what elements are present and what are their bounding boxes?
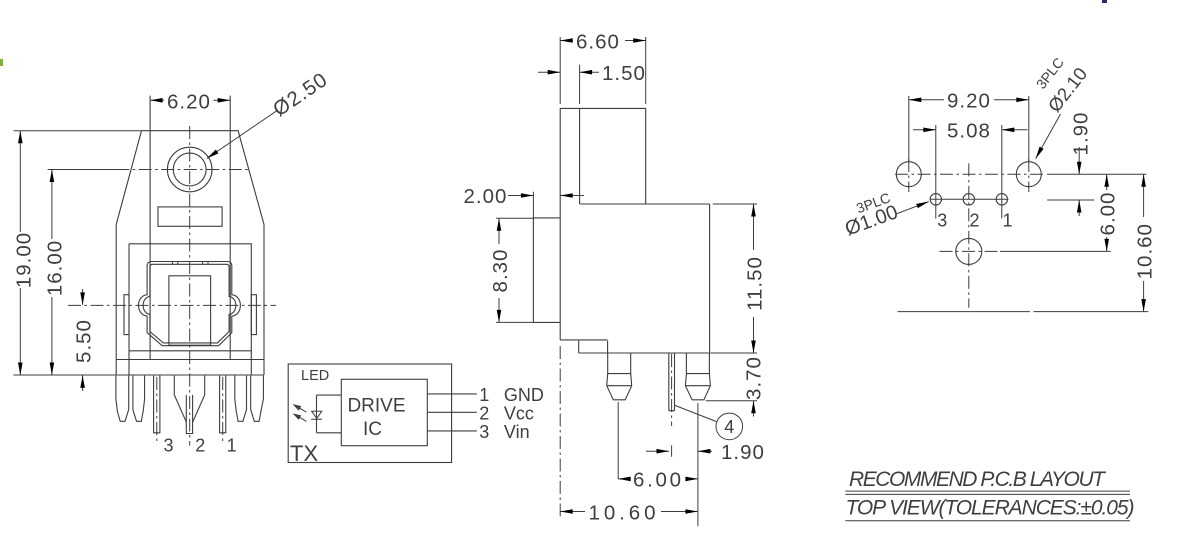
svg-text:2: 2 xyxy=(195,436,205,456)
dimension 1.90 side xyxy=(646,441,765,464)
dimension 10.60 side xyxy=(560,501,698,524)
front view base band xyxy=(116,360,264,376)
dimension 1.50 xyxy=(538,62,646,104)
front metal pin 2 xyxy=(186,395,192,434)
title line recommend pcb layout xyxy=(849,468,1107,491)
svg-text:2: 2 xyxy=(479,403,489,423)
svg-text:GND: GND xyxy=(504,385,544,405)
title bottom rule xyxy=(845,520,1130,522)
dimension 6.20 xyxy=(150,90,230,113)
pcb vertical centerline xyxy=(968,163,970,307)
svg-text:LED: LED xyxy=(301,368,329,384)
dimension 19.00 xyxy=(13,131,142,375)
pcb right shared extension line xyxy=(1047,173,1147,175)
side view body xyxy=(579,204,710,353)
svg-text:19.00: 19.00 xyxy=(13,232,36,288)
schematic output wire 1 xyxy=(427,393,477,395)
dimension 9.20 xyxy=(909,90,1029,162)
front plastic peg far-right xyxy=(251,376,264,422)
front view vertical centerline xyxy=(189,126,191,446)
front plastic peg second-left xyxy=(133,376,145,422)
svg-text:1.50: 1.50 xyxy=(602,62,646,85)
toslink socket top edge tick marks xyxy=(172,262,208,265)
svg-text:Vin: Vin xyxy=(504,422,530,442)
svg-text:5.50: 5.50 xyxy=(73,319,96,363)
svg-text:TX: TX xyxy=(290,441,318,466)
svg-text:9.20: 9.20 xyxy=(947,90,991,113)
svg-text:3: 3 xyxy=(937,211,947,231)
front plastic peg second-right xyxy=(235,376,247,422)
socket side latch tab right xyxy=(251,295,256,335)
pcb large holes horizontal centerline xyxy=(895,173,1046,175)
svg-text:1: 1 xyxy=(227,436,237,456)
dimension 5.50 xyxy=(73,289,96,391)
svg-text:6.60: 6.60 xyxy=(576,30,620,53)
pin number 2 label xyxy=(195,436,205,456)
svg-text:6.00: 6.00 xyxy=(633,469,682,492)
svg-text:1: 1 xyxy=(1003,211,1013,231)
front metal pin 3 xyxy=(154,376,160,433)
front view hole horizontal centerline xyxy=(116,169,250,171)
svg-text:1: 1 xyxy=(479,385,489,405)
pcb pad row horizontal line xyxy=(931,198,1009,200)
title double rule xyxy=(845,491,1130,494)
green fleck left edge xyxy=(0,59,3,66)
side view bottom front notch xyxy=(560,340,607,353)
schematic pin 3 Vin xyxy=(479,422,529,442)
title line top view tolerances xyxy=(846,497,1135,520)
left pin extension line xyxy=(617,402,619,479)
hole diameter leader 2.50 xyxy=(206,68,333,161)
circled callout 4 xyxy=(675,405,743,439)
pcb bottom hole extension line xyxy=(1000,250,1111,252)
pad diameter leader 1.00 xyxy=(842,189,929,240)
socket side latch tab left xyxy=(124,295,129,335)
pin 1 centerline xyxy=(222,377,224,443)
svg-text:11.50: 11.50 xyxy=(744,256,767,311)
front edge extension centerline xyxy=(559,346,561,519)
dimension 3.70 xyxy=(706,356,766,416)
svg-text:5.08: 5.08 xyxy=(947,120,991,143)
toslink socket inner contour xyxy=(143,264,236,343)
svg-text:10.60: 10.60 xyxy=(1134,223,1157,279)
svg-text:TOP VIEW(TOLERANCES:±0.05): TOP VIEW(TOLERANCES:±0.05) xyxy=(846,497,1135,520)
right pin extension line xyxy=(697,403,699,526)
pcb bottom extension line xyxy=(898,311,1149,313)
front view inner vertical edges (6.20 extension lines) xyxy=(150,96,230,360)
schematic output wire 3 xyxy=(427,430,477,432)
led emission arrow lower xyxy=(293,413,307,421)
svg-text:2.00: 2.00 xyxy=(464,185,508,208)
toslink socket outer contour xyxy=(139,262,241,346)
dimension 6.00 pcb xyxy=(1097,174,1120,251)
schematic IC text xyxy=(363,419,382,440)
front metal pin 1 xyxy=(220,376,226,433)
dimension 6.60 xyxy=(560,30,646,104)
pin 3 centerline xyxy=(156,377,158,443)
side view front edge xyxy=(559,108,561,340)
dimension 16.00 xyxy=(44,170,121,376)
svg-text:2: 2 xyxy=(970,211,980,231)
svg-text:IC: IC xyxy=(363,419,382,440)
svg-text:3: 3 xyxy=(479,422,489,442)
pcb large hole right xyxy=(1016,159,1041,192)
pin number 3 label xyxy=(164,436,174,456)
pcb small pad 2 xyxy=(963,194,974,205)
side view thin center pin xyxy=(669,353,675,411)
schematic outer box xyxy=(288,364,451,463)
schematic pin 1 GND xyxy=(479,385,544,405)
svg-text:10.60: 10.60 xyxy=(589,501,657,524)
dimension 2.00 xyxy=(464,185,585,218)
toslink aperture rectangle xyxy=(169,276,211,345)
svg-text:DRIVE: DRIVE xyxy=(347,396,405,417)
hole diameter leader 2.10 xyxy=(1033,54,1091,159)
dimension 5.08 xyxy=(913,120,1028,219)
pcb pad extension line right xyxy=(1047,199,1094,201)
pin number 1 label xyxy=(227,436,237,456)
dimension 6.00 side xyxy=(618,469,698,492)
front view mounting hole circle outer xyxy=(167,147,212,192)
pcb bottom hole horizontal centerline xyxy=(940,250,999,252)
side view left protrusion xyxy=(533,218,560,323)
svg-text:Vcc: Vcc xyxy=(504,403,534,423)
thin pin centerline xyxy=(671,354,673,426)
front view small label rectangle xyxy=(158,207,222,226)
side view right pin xyxy=(685,353,710,400)
led emission arrow upper xyxy=(293,404,307,412)
svg-text:16.00: 16.00 xyxy=(44,240,67,296)
schematic pin 2 Vcc xyxy=(479,403,534,423)
front center plastic peg xyxy=(174,376,204,423)
svg-text:3: 3 xyxy=(164,436,174,456)
led circuit wires xyxy=(317,395,342,433)
led diode symbol xyxy=(311,411,322,419)
svg-text:RECOMMEND P.C.B LAYOUT: RECOMMEND P.C.B LAYOUT xyxy=(849,468,1107,491)
dimension 8.30 xyxy=(489,218,533,322)
side view top tab xyxy=(560,108,646,204)
front view socket horizontal centerline xyxy=(68,304,276,306)
dimension 1.90 pcb xyxy=(1070,112,1093,216)
svg-text:6.20: 6.20 xyxy=(167,90,211,113)
svg-text:6.00: 6.00 xyxy=(1097,192,1120,236)
front plastic peg far-left xyxy=(116,376,129,422)
svg-text:Ø2.50: Ø2.50 xyxy=(269,68,332,121)
schematic drive ic box xyxy=(341,379,427,445)
schematic LED label xyxy=(301,368,329,384)
pcb pad label 3 xyxy=(937,211,947,231)
svg-text:1.90: 1.90 xyxy=(1070,112,1093,156)
pcb large hole left xyxy=(896,159,921,192)
svg-text:4: 4 xyxy=(724,417,734,437)
pcb small pad 1 xyxy=(996,194,1007,205)
dimension 11.50 xyxy=(710,204,766,353)
svg-text:1.90: 1.90 xyxy=(721,441,765,464)
front view mounting hole circle inner xyxy=(173,153,206,186)
pcb pad label 2 xyxy=(970,211,980,231)
side view left pin xyxy=(607,353,632,400)
purple dot top edge xyxy=(1102,0,1107,3)
front view inner box xyxy=(129,244,251,375)
front view body outline xyxy=(116,131,264,360)
pcb pad label 1 xyxy=(1003,211,1013,231)
svg-text:3.70: 3.70 xyxy=(743,356,766,400)
pcb bottom hole xyxy=(956,238,982,264)
pcb small pad 3 xyxy=(930,194,941,205)
schematic DRIVE text xyxy=(347,396,405,417)
svg-text:8.30: 8.30 xyxy=(489,249,512,293)
dimension 10.60 pcb xyxy=(1134,174,1157,311)
schematic TX label xyxy=(290,441,318,466)
schematic output wire 2 xyxy=(427,411,477,413)
